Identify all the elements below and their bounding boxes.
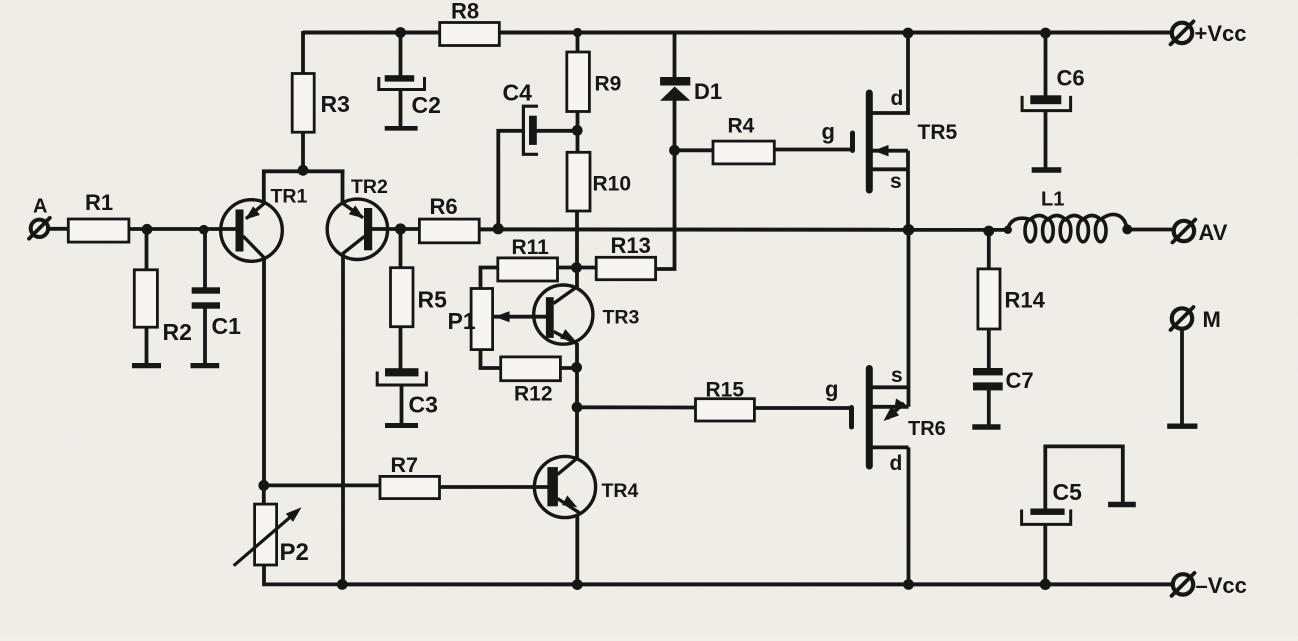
wire TR2 collector down — [341, 254, 345, 585]
mosfet TR5 — [866, 93, 873, 190]
potentiometer P2 — [255, 504, 277, 565]
wire A to R1 — [47, 227, 69, 231]
resistor R7 — [380, 476, 440, 498]
resistor R8 — [440, 23, 500, 46]
svg-text:R9: R9 — [595, 73, 622, 96]
terminal A — [31, 220, 48, 237]
junction C1 — [199, 225, 209, 235]
svg-text:R12: R12 — [514, 383, 553, 406]
svg-text:C5: C5 — [1053, 479, 1083, 505]
svg-text:TR2: TR2 — [351, 176, 388, 198]
wire C5 top hook — [1045, 446, 1123, 510]
transistor TR4 — [534, 456, 595, 517]
resistor R13 — [596, 257, 655, 279]
junction top C2 — [395, 27, 406, 38]
terminal -Vcc — [1173, 574, 1193, 594]
wire M terminal down lead — [1180, 328, 1184, 424]
svg-text:TR4: TR4 — [602, 480, 639, 502]
svg-text:C4: C4 — [503, 79, 533, 105]
junction top R9 — [573, 28, 582, 37]
wire R15 left lead — [577, 405, 697, 409]
transistor TR1 — [221, 200, 283, 262]
svg-text:D1: D1 — [694, 79, 722, 104]
wire C3 to ground bar — [400, 384, 404, 424]
resistor R9 — [567, 52, 590, 112]
svg-text:+Vcc: +Vcc — [1195, 21, 1247, 46]
wire TR2 base to R6 — [372, 227, 420, 231]
wire TR5 source to AV rail — [906, 151, 910, 231]
wire R9 top stub — [576, 31, 580, 53]
svg-text:TR1: TR1 — [271, 186, 308, 208]
wire C7 to ground bar — [987, 390, 991, 425]
svg-text:R7: R7 — [391, 453, 419, 477]
svg-text:C6: C6 — [1057, 66, 1085, 91]
wire top +Vcc rail — [303, 31, 1172, 35]
terminal M — [1172, 308, 1192, 328]
junction R12-TR3 — [571, 362, 582, 373]
resistor R15 — [696, 399, 755, 421]
ground bar M — [1167, 424, 1197, 429]
svg-text:R1: R1 — [85, 190, 113, 215]
wire R3 bottom — [301, 132, 305, 174]
resistor R5 — [391, 268, 414, 327]
resistor R4 — [713, 141, 774, 164]
svg-text:AV: AV — [1199, 220, 1228, 245]
svg-text:R4: R4 — [728, 115, 755, 138]
resistor R6 — [419, 219, 479, 243]
diode D1 — [660, 77, 690, 86]
wire R5 to C3 — [399, 326, 403, 369]
wire R6 to C4 branch — [498, 131, 524, 230]
wire R2 column — [145, 229, 149, 271]
svg-text:C2: C2 — [412, 92, 441, 118]
junction R1-R2 — [142, 224, 153, 235]
wire C1 bottom lead — [203, 308, 207, 364]
svg-text:L1: L1 — [1041, 189, 1064, 211]
capacitor C1 — [192, 287, 220, 293]
ground bar C3 — [385, 423, 418, 428]
capacitor C3 — [385, 368, 419, 376]
junction top C6 — [1040, 28, 1051, 39]
wire TR2 emitter up — [341, 170, 345, 205]
wire TR6 drain down — [907, 447, 911, 584]
terminal +Vcc — [1172, 23, 1192, 43]
transistor TR3 — [534, 285, 593, 344]
junction R15 row — [572, 402, 583, 413]
wire P2 bottom lead — [264, 564, 345, 584]
wire TR1 emitter up — [262, 170, 266, 205]
capacitor C5 — [1030, 509, 1064, 515]
svg-text:R6: R6 — [430, 194, 458, 219]
svg-text:C1: C1 — [212, 313, 242, 339]
terminal AV — [1174, 221, 1194, 241]
resistor R1 — [68, 219, 129, 242]
junction D1-R4 — [669, 145, 680, 156]
svg-text:C7: C7 — [1006, 368, 1034, 393]
capacitor C6 — [1030, 95, 1061, 104]
wire TR4 emitter down — [575, 515, 579, 584]
resistor R2 — [134, 270, 157, 327]
wire R9-R10 link — [576, 111, 580, 153]
ground bar C2 — [385, 126, 418, 131]
ground bar C5 hook — [1108, 502, 1136, 507]
wire C2 top column — [399, 31, 403, 76]
junction bottom TR4 — [572, 579, 583, 590]
wire TR3 emitter column — [575, 343, 579, 459]
wire R4 left lead — [675, 148, 714, 152]
wire C1 top lead — [203, 229, 207, 288]
svg-text:R11: R11 — [512, 236, 550, 259]
junction bottom C5 — [1040, 579, 1051, 590]
wire R7 to TR4 base — [439, 485, 549, 489]
mosfet TR6 — [866, 369, 873, 467]
wire D1 top stub — [673, 31, 677, 79]
wire P1 wiper to TR3 base — [494, 315, 547, 319]
svg-text:g: g — [825, 377, 838, 402]
resistor R3 — [292, 74, 314, 133]
ground bar C1 — [191, 363, 220, 368]
wire R5 column — [399, 229, 403, 269]
wire R3 top column — [301, 31, 305, 74]
junction R11-R13 — [571, 262, 582, 273]
wire R14 top lead — [987, 230, 991, 270]
wire mid AV rail — [479, 227, 1008, 231]
svg-text:–Vcc: –Vcc — [1196, 573, 1247, 598]
wire R10 bottom to R11 row — [575, 211, 579, 288]
junction C4-R9-R10 — [572, 125, 583, 136]
wire R15 to TR6 gate — [754, 406, 852, 410]
inductor L1 — [1025, 219, 1036, 241]
ground bar C6 — [1032, 167, 1062, 172]
wire emitter rail TR1-TR2 — [262, 169, 345, 173]
capacitor C7 — [973, 368, 1003, 375]
svg-text:TR5: TR5 — [918, 121, 958, 144]
svg-text:d: d — [891, 87, 904, 110]
resistor R12 — [501, 357, 561, 381]
wire R1 to TR1 base — [129, 227, 237, 231]
resistor R11 — [498, 258, 558, 281]
wire TR1 collector down — [262, 258, 266, 488]
wire R7 left lead — [264, 483, 381, 487]
wire R13 right to D1 column — [655, 99, 675, 269]
wire C4 right lead — [537, 129, 579, 133]
wire R14 to C7 — [987, 328, 991, 369]
wire C6 to ground bar — [1044, 110, 1048, 168]
junction AV rail TR5-TR6 — [903, 224, 915, 236]
capacitor C2 — [385, 75, 415, 81]
svg-text:A: A — [33, 196, 47, 218]
svg-text:R8: R8 — [451, 0, 479, 24]
wire TR5 drain vertical — [871, 31, 908, 113]
wire C6 top column — [1044, 31, 1048, 96]
wire TR6 source to AV rail — [907, 229, 911, 407]
resistor R14 — [978, 269, 1000, 329]
ground bar C7 — [972, 424, 1000, 429]
wire P1 bottom to R12 — [481, 349, 502, 369]
wire R4 to TR5 gate — [774, 148, 853, 152]
svg-text:R10: R10 — [593, 173, 632, 196]
svg-text:R2: R2 — [163, 319, 192, 345]
wire R11 left lead — [481, 268, 499, 290]
svg-text:R14: R14 — [1005, 288, 1046, 313]
svg-text:R5: R5 — [418, 287, 448, 313]
svg-text:s: s — [890, 170, 902, 193]
svg-text:M: M — [1203, 307, 1221, 332]
svg-text:d: d — [890, 452, 903, 475]
junction top TR5 drain — [903, 28, 914, 39]
wire R12 right lead — [560, 366, 579, 370]
svg-text:TR3: TR3 — [603, 306, 640, 328]
wire R11-R13 link — [557, 266, 597, 270]
svg-text:P2: P2 — [280, 539, 309, 566]
resistor R10 — [567, 152, 590, 211]
transistor TR2 — [327, 199, 387, 259]
potentiometer P1 — [471, 289, 493, 350]
junction AV rail R14 — [983, 226, 994, 237]
svg-text:g: g — [822, 119, 835, 144]
svg-text:C3: C3 — [409, 392, 438, 418]
svg-text:TR6: TR6 — [908, 418, 946, 440]
ground bar R2 — [132, 363, 161, 368]
junction bottom TR6 — [903, 579, 914, 590]
junction TR2 base R5 — [395, 223, 406, 234]
wire L1 to AV terminal — [1127, 228, 1173, 232]
wire R2 to ground bar — [145, 327, 149, 365]
svg-text:s: s — [891, 364, 903, 387]
svg-text:R15: R15 — [706, 379, 745, 402]
junction bottom TR2 — [337, 579, 348, 590]
wire P2 top lead — [262, 483, 266, 505]
wire bottom -Vcc rail — [342, 582, 1173, 586]
junction TR1 collector R7 — [258, 480, 269, 491]
wire C5 bottom lead — [1043, 524, 1047, 584]
junction R6-C4 — [493, 223, 504, 234]
junction R3 emitter rail — [298, 165, 309, 176]
svg-text:P1: P1 — [448, 308, 476, 334]
svg-text:R3: R3 — [321, 91, 350, 117]
capacitor C4 — [523, 106, 538, 154]
svg-text:R13: R13 — [611, 233, 651, 258]
